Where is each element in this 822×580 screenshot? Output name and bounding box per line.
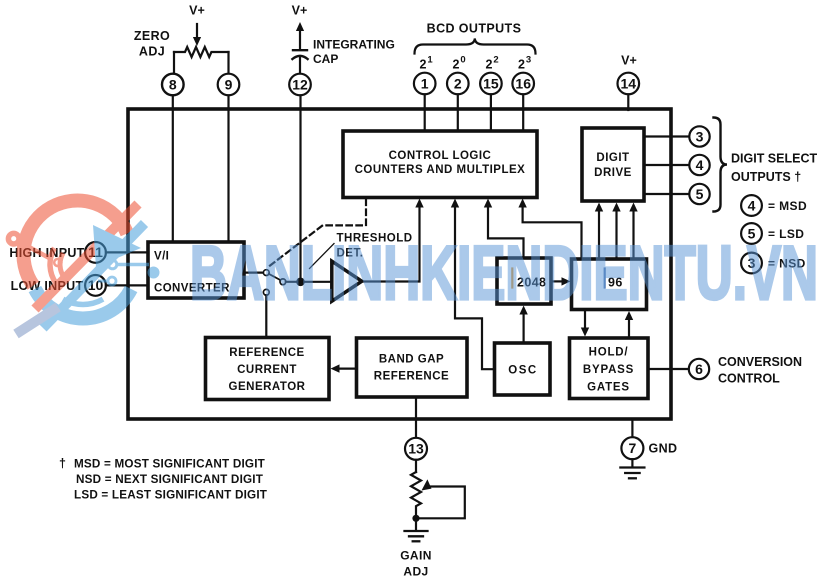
svg-text:COUNTERS AND MULTIPLEX: COUNTERS AND MULTIPLEX <box>355 164 526 176</box>
pin 14 <box>618 73 640 95</box>
switch contact a <box>263 270 269 276</box>
svg-text:HOLD/: HOLD/ <box>589 347 629 359</box>
svg-text:OSC: OSC <box>508 365 537 377</box>
svg-text:ADJ: ADJ <box>139 45 165 59</box>
divide bar 2048 (orange tick) <box>511 269 513 288</box>
control logic box U-CL <box>343 131 537 198</box>
watermark logo outer ring salmon arc <box>23 201 127 286</box>
svg-text:5: 5 <box>696 186 704 202</box>
wire 96 to control logic <box>523 204 582 259</box>
pin 11 <box>85 242 106 263</box>
wires BCD pins down to control logic <box>424 94 426 131</box>
pin 4 <box>689 155 709 175</box>
pin 9 <box>218 74 240 96</box>
reference current generator box <box>206 338 330 400</box>
pin 10 <box>85 275 106 296</box>
wire V/I out to switch <box>244 272 263 274</box>
svg-text:V+: V+ <box>621 54 637 68</box>
watermark logo salmon trace dot <box>8 233 19 244</box>
svg-text:DIGIT: DIGIT <box>596 152 629 164</box>
svg-text:V+: V+ <box>292 4 308 18</box>
wire pin12 down to comparator input node <box>299 95 301 281</box>
wire OSC to 2048 arrow <box>522 311 524 343</box>
svg-text:4: 4 <box>748 197 756 213</box>
wire pin11 to V/I <box>106 251 148 253</box>
svg-text:1: 1 <box>427 55 433 66</box>
wire pin9 into chip to V/I <box>227 95 229 242</box>
svg-text:15: 15 <box>483 75 499 91</box>
svg-text:CONTROL LOGIC: CONTROL LOGIC <box>389 150 492 162</box>
switch contact common <box>280 279 286 285</box>
wire pin13 to gain pot <box>415 460 417 472</box>
wire with up arrow to V+ <box>296 22 304 31</box>
ground symbol pin 7 <box>631 459 633 467</box>
wire contact b down to reference current generator <box>265 295 267 337</box>
svg-text:OUTPUTS †: OUTPUTS † <box>731 170 801 184</box>
potentiometer R-zero between pins 8 and 9 <box>174 47 229 57</box>
wire chip bottom to pin 7 <box>631 419 633 437</box>
svg-text:13: 13 <box>408 441 424 457</box>
svg-text:REFERENCE: REFERENCE <box>374 371 449 383</box>
svg-text:2: 2 <box>420 58 427 72</box>
wire band gap down to pin 13 <box>415 397 417 438</box>
svg-text:V/I: V/I <box>154 251 169 263</box>
pin 5 <box>689 184 709 204</box>
OSC box <box>495 343 551 395</box>
wire pin14 to chip top <box>627 94 629 110</box>
svg-text:BYPASS: BYPASS <box>583 364 634 376</box>
legend pin 3 = NSD <box>741 253 762 274</box>
node pot junction <box>412 515 419 522</box>
wires digit drive to pins 3 4 5 <box>644 135 690 137</box>
svg-text:V+: V+ <box>189 4 205 18</box>
watermark logo blue diagonal stripe <box>43 224 145 329</box>
brace digit select <box>714 118 728 212</box>
watermark logo outer ring blue arc <box>35 289 131 318</box>
svg-text:CURRENT: CURRENT <box>237 364 297 376</box>
svg-text:CONTROL: CONTROL <box>718 371 780 385</box>
legend pin 5 = LSD <box>741 223 762 244</box>
svg-text:CONVERSION: CONVERSION <box>718 355 802 369</box>
svg-text:2: 2 <box>493 55 498 66</box>
svg-text:3: 3 <box>696 128 704 144</box>
wires 96 up to digit drive (3 lines) <box>598 208 600 259</box>
svg-text:DRIVE: DRIVE <box>594 167 632 179</box>
svg-text:CAP: CAP <box>313 52 338 66</box>
svg-text:3: 3 <box>526 55 531 66</box>
wire comparator output up to control logic <box>362 204 420 282</box>
main IC outline box <box>128 109 671 419</box>
pin 13 <box>405 438 427 460</box>
pin 3 <box>689 126 709 146</box>
band gap reference box <box>357 338 468 397</box>
svg-text:ZERO: ZERO <box>134 29 170 43</box>
capacitor integrating cap <box>293 49 307 51</box>
svg-text:GENERATOR: GENERATOR <box>229 381 306 393</box>
wire OSC to control logic <box>455 204 495 369</box>
brace over BCD pins <box>415 39 536 54</box>
svg-text:LSD = LEAST SIGNIFICANT DIGIT: LSD = LEAST SIGNIFICANT DIGIT <box>74 488 268 501</box>
svg-text:GAIN: GAIN <box>400 549 432 563</box>
V/I converter box <box>148 242 244 298</box>
switch contact b <box>263 289 269 295</box>
svg-text:1: 1 <box>421 75 429 91</box>
potentiometer R-gain <box>411 472 421 518</box>
dashed control line to switch <box>268 200 367 268</box>
wire 96 down to hold arrow <box>584 310 586 331</box>
pin 15 <box>480 73 502 95</box>
svg-text:7: 7 <box>629 440 637 456</box>
wire hold up to 96 arrow <box>628 317 630 338</box>
wire band gap to ref current gen arrow <box>336 368 357 370</box>
legend pin 4 = MSD <box>741 195 762 216</box>
wire 2048 to 96 arrow <box>551 280 563 282</box>
svg-text:GATES: GATES <box>587 382 630 394</box>
svg-text:2: 2 <box>453 58 460 72</box>
divide bar 96 (blue tick) <box>604 269 606 288</box>
wiper arrow <box>422 479 432 490</box>
watermark logo inner blue arc <box>63 299 103 304</box>
svg-text:ADJ: ADJ <box>403 565 428 579</box>
svg-text:INTEGRATING: INTEGRATING <box>313 38 395 52</box>
pin 16 <box>512 73 534 95</box>
wire pin8 into chip to V/I <box>172 95 174 242</box>
wire pin9 vertical <box>227 52 229 74</box>
watermark logo salmon diagonal stripe <box>35 204 138 309</box>
watermark logo blue trace ring 2 <box>108 277 116 285</box>
svg-text:BCD OUTPUTS: BCD OUTPUTS <box>427 22 522 36</box>
watermark logo inner salmon arc 2 <box>60 253 64 278</box>
wire common to comparator <box>286 281 332 283</box>
divider 96 box <box>572 259 647 310</box>
svg-text:2: 2 <box>486 58 493 72</box>
wire V+ down arrow to potentiometer <box>196 24 198 38</box>
watermark logo salmon trace ring <box>54 259 61 266</box>
svg-text:REFERENCE: REFERENCE <box>229 347 304 359</box>
svg-text:NSD = NEXT SIGNIFICANT DIGIT: NSD = NEXT SIGNIFICANT DIGIT <box>76 473 264 486</box>
pin 1 <box>414 73 436 95</box>
svg-text:GND: GND <box>649 442 678 456</box>
svg-text:= MSD: = MSD <box>768 199 807 213</box>
watermark logo gray-blue diagonal stripe <box>16 307 58 334</box>
switch lever <box>269 274 280 280</box>
pin 2 <box>447 73 469 95</box>
comparator threshold detector <box>332 261 362 301</box>
svg-text:9: 9 <box>225 76 233 92</box>
leader line from label <box>310 244 335 269</box>
wire pin8 vertical <box>173 52 175 74</box>
svg-text:0: 0 <box>460 55 465 66</box>
ground below gain pot <box>415 518 417 530</box>
svg-text:14: 14 <box>621 75 637 91</box>
divider 2048 box <box>497 258 551 304</box>
svg-text:2: 2 <box>454 75 462 91</box>
svg-text:BANLINHKIENDIENTU.VN: BANLINHKIENDIENTU.VN <box>190 231 818 316</box>
svg-text:MSD = MOST SIGNIFICANT DIGIT: MSD = MOST SIGNIFICANT DIGIT <box>74 458 266 471</box>
pin 7 <box>621 437 643 459</box>
svg-text:4: 4 <box>696 157 704 173</box>
watermark logo inner salmon arc 1 <box>50 248 56 283</box>
svg-text:12: 12 <box>292 76 308 92</box>
wire 2048 to control logic <box>488 204 524 258</box>
wire hold bypass to pin 6 <box>648 368 689 370</box>
svg-text:DIGIT SELECT: DIGIT SELECT <box>731 152 817 166</box>
pin 8 <box>162 74 184 96</box>
svg-text:6: 6 <box>695 361 703 377</box>
digit drive box <box>582 128 644 201</box>
svg-text:16: 16 <box>515 75 531 91</box>
svg-text:8: 8 <box>169 76 177 92</box>
pin 12 <box>289 74 311 96</box>
wire pin10 to V/I <box>106 284 148 286</box>
pin 6 <box>689 359 709 379</box>
watermark logo blue triangle <box>93 225 141 267</box>
watermark logo blue trace ring and dot <box>108 260 117 269</box>
node junction (pin12 line joins comparator input) <box>296 278 305 287</box>
svg-text:†: † <box>59 457 66 471</box>
hold bypass gates box <box>570 338 649 399</box>
svg-text:2: 2 <box>518 58 525 72</box>
svg-text:BAND GAP: BAND GAP <box>379 354 444 366</box>
